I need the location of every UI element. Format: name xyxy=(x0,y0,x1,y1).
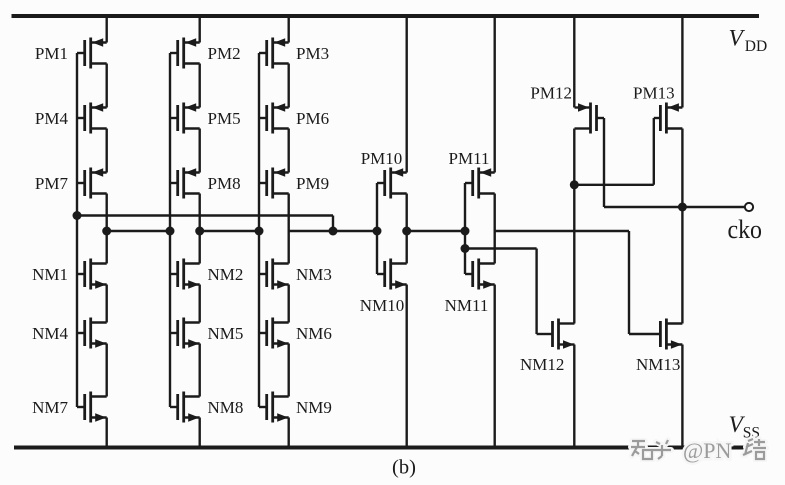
wire: column3 gate bus (node C) xyxy=(258,53,260,407)
wire: NM8 source to VSS xyxy=(198,418,200,448)
junction: col2 gate bus xyxy=(166,227,175,236)
svg-text:PM8: PM8 xyxy=(208,174,241,193)
svg-text:NM3: NM3 xyxy=(296,265,332,284)
transistor NM2 xyxy=(170,259,243,290)
transistor PM7 xyxy=(35,168,107,199)
transistor NM7 xyxy=(32,392,107,423)
transistor NM8 xyxy=(170,392,243,423)
svg-text:NM10: NM10 xyxy=(360,296,404,315)
junction: col3 gate bus xyxy=(255,227,264,236)
svg-text:NM11: NM11 xyxy=(445,296,489,315)
wire: NM11 source to VSS xyxy=(494,285,496,448)
svg-text:PM3: PM3 xyxy=(296,44,329,63)
transistor NM10 xyxy=(360,259,407,316)
wire: NM10 source to VSS xyxy=(406,285,408,448)
svg-text:PM2: PM2 xyxy=(208,44,241,63)
junction: output node cko xyxy=(678,203,687,212)
wire: VDD to PM12 source xyxy=(573,16,575,108)
svg-text:NM13: NM13 xyxy=(636,355,680,374)
wire: PM10 drain to NM10 drain xyxy=(406,194,408,264)
wire: PM12 drain to PM13 gate (horizontal) xyxy=(574,184,654,186)
wire: column1 gate bus (node A) xyxy=(76,53,78,407)
svg-text:PM9: PM9 xyxy=(296,174,329,193)
transistor PM11 xyxy=(449,149,495,198)
transistor NM3 xyxy=(259,259,332,290)
svg-text:(b): (b) xyxy=(392,457,416,479)
wire: PM4 drain to PM7 source xyxy=(105,129,107,173)
junction: PM12 drain / PM13 gate xyxy=(570,180,579,189)
wire: stage3 output to PM10/NM10 gates xyxy=(289,230,377,232)
junction: PM11/NM11 gate xyxy=(461,227,470,236)
wire: NM2 source to NM5 drain xyxy=(198,285,200,323)
transistor NM6 xyxy=(259,318,332,349)
svg-text:NM4: NM4 xyxy=(32,324,68,343)
wire: PM13 drain to NM13 drain xyxy=(681,129,683,324)
wire: NM1 source to NM4 drain xyxy=(105,285,107,323)
wire: NM5 source to NM8 drain xyxy=(198,344,200,397)
wire: PM1 drain to PM4 source xyxy=(105,64,107,108)
svg-text:PM6: PM6 xyxy=(296,109,329,128)
wire: PM13 gate wire (vertical) xyxy=(653,118,655,185)
transistor PM2 xyxy=(170,38,241,69)
svg-text:PM1: PM1 xyxy=(35,44,68,63)
transistor PM13 xyxy=(633,84,682,134)
svg-text:PM4: PM4 xyxy=(35,109,69,128)
svg-text:NM1: NM1 xyxy=(32,265,68,284)
wire: PM10 drain to PM11/NM11 gates xyxy=(407,230,465,232)
wire: PM11 drain to NM11 drain xyxy=(494,194,496,264)
transistor PM3 xyxy=(259,38,329,69)
svg-text:PM13: PM13 xyxy=(633,84,675,103)
wire: NM6 source to NM9 drain xyxy=(288,344,290,397)
wire: PM2 drain to PM5 source xyxy=(198,64,200,108)
transistor PM5 xyxy=(170,103,241,134)
transistor NM9 xyxy=(259,392,332,423)
wire: NM13 source to VSS xyxy=(681,345,683,448)
wire: NM9 source to VSS xyxy=(288,418,290,448)
transistor PM4 xyxy=(35,103,107,134)
wire: column2 gate bus (node B) xyxy=(169,53,171,407)
svg-text:DD: DD xyxy=(745,38,767,55)
junction: PM10/NM10 drain xyxy=(402,227,411,236)
transistor NM1 xyxy=(32,259,107,290)
wire: VDD to PM3 source xyxy=(288,16,290,43)
wire: PM8 drain to NM2 drain xyxy=(198,194,200,264)
wire: NM4 source to NM7 drain xyxy=(105,344,107,397)
svg-text:NM9: NM9 xyxy=(296,398,332,417)
wire: feedback vertical jog xyxy=(332,216,334,232)
wire: PM7 drain to NM1 drain xyxy=(105,194,107,264)
wire: NM12 gate wire (vertical) xyxy=(535,249,537,335)
wire: NM13 gate wire (vertical) xyxy=(628,231,630,334)
transistor PM6 xyxy=(259,103,329,134)
wire: PM6 drain to PM9 source xyxy=(288,129,290,173)
svg-text:cko: cko xyxy=(728,215,763,244)
wire: output node to cko terminal xyxy=(682,206,744,208)
watermark: zhihu @PN-jie xyxy=(631,439,766,459)
wire: NM7 source to VSS xyxy=(105,418,107,448)
wire: PM3 drain to PM6 source xyxy=(288,64,290,108)
junction: stage2 output xyxy=(195,227,204,236)
wire: VDD to PM2 source xyxy=(198,16,200,43)
svg-text:NM7: NM7 xyxy=(32,398,68,417)
wire: VDD to PM1 source xyxy=(105,16,107,43)
wire: PM5 drain to PM8 source xyxy=(198,129,200,173)
VSS rail xyxy=(14,446,766,450)
svg-text:NM8: NM8 xyxy=(208,398,244,417)
wire: NM3 source to NM6 drain xyxy=(288,285,290,323)
transistor NM13 xyxy=(629,319,682,375)
svg-text:NM5: NM5 xyxy=(208,324,244,343)
wire: PM11/NM11 gate wire xyxy=(464,183,466,274)
wire: stage3 output feedback to column1 gates (upper bus) xyxy=(77,214,333,216)
terminal: cko (open circle) xyxy=(745,203,753,211)
wire: PM9 drain to NM3 drain xyxy=(288,194,290,264)
transistor PM1 xyxy=(35,38,107,69)
transistor NM12 xyxy=(520,319,575,375)
wire: VDD to PM13 source xyxy=(681,16,683,108)
svg-text:NM2: NM2 xyxy=(208,265,244,284)
wire: PM11/NM11 gate to NM12 gate (horizontal) xyxy=(465,247,537,249)
svg-text:PM10: PM10 xyxy=(361,149,403,168)
transistor NM11 xyxy=(445,259,495,316)
junction: NM12 gate tap xyxy=(461,244,470,253)
svg-text:NM12: NM12 xyxy=(520,355,564,374)
junction: PM10/NM10 gate xyxy=(373,227,382,236)
wire: VDD to PM11 source xyxy=(494,16,496,173)
wire: PM11 output to NM13 gate (horizontal) xyxy=(495,230,629,232)
svg-text:PM12: PM12 xyxy=(530,84,572,103)
transistor PM12 xyxy=(530,84,604,134)
svg-text:PM5: PM5 xyxy=(208,109,241,128)
junction: feedback tap on stage3 output xyxy=(329,227,338,236)
wire: PM12 drain to NM12 drain xyxy=(573,129,575,324)
transistor PM9 xyxy=(259,168,329,199)
wire: VDD to PM10 source xyxy=(406,16,408,173)
wire: stage2 output to column3 gates xyxy=(200,230,259,232)
transistor NM4 xyxy=(32,318,107,349)
svg-text:@PN: @PN xyxy=(683,438,731,463)
wire: NM12 source to VSS xyxy=(573,345,575,448)
VDD rail xyxy=(12,14,760,18)
transistor NM5 xyxy=(170,318,243,349)
junction: stage1 output xyxy=(102,227,111,236)
wire: PM12 gate wire (vertical) xyxy=(603,118,605,207)
svg-text:NM6: NM6 xyxy=(296,324,332,343)
junction: col1 gate bus / feedback xyxy=(73,211,82,220)
svg-text:PM11: PM11 xyxy=(449,149,490,168)
svg-text:PM7: PM7 xyxy=(35,174,69,193)
transistor PM10 xyxy=(361,149,407,198)
wire: PM12 gate to output node (horizontal) xyxy=(604,206,682,208)
wire: PM10/NM10 gate wire xyxy=(376,183,378,274)
transistor PM8 xyxy=(170,168,241,199)
wire: stage1 output to column2 gates xyxy=(107,230,170,232)
